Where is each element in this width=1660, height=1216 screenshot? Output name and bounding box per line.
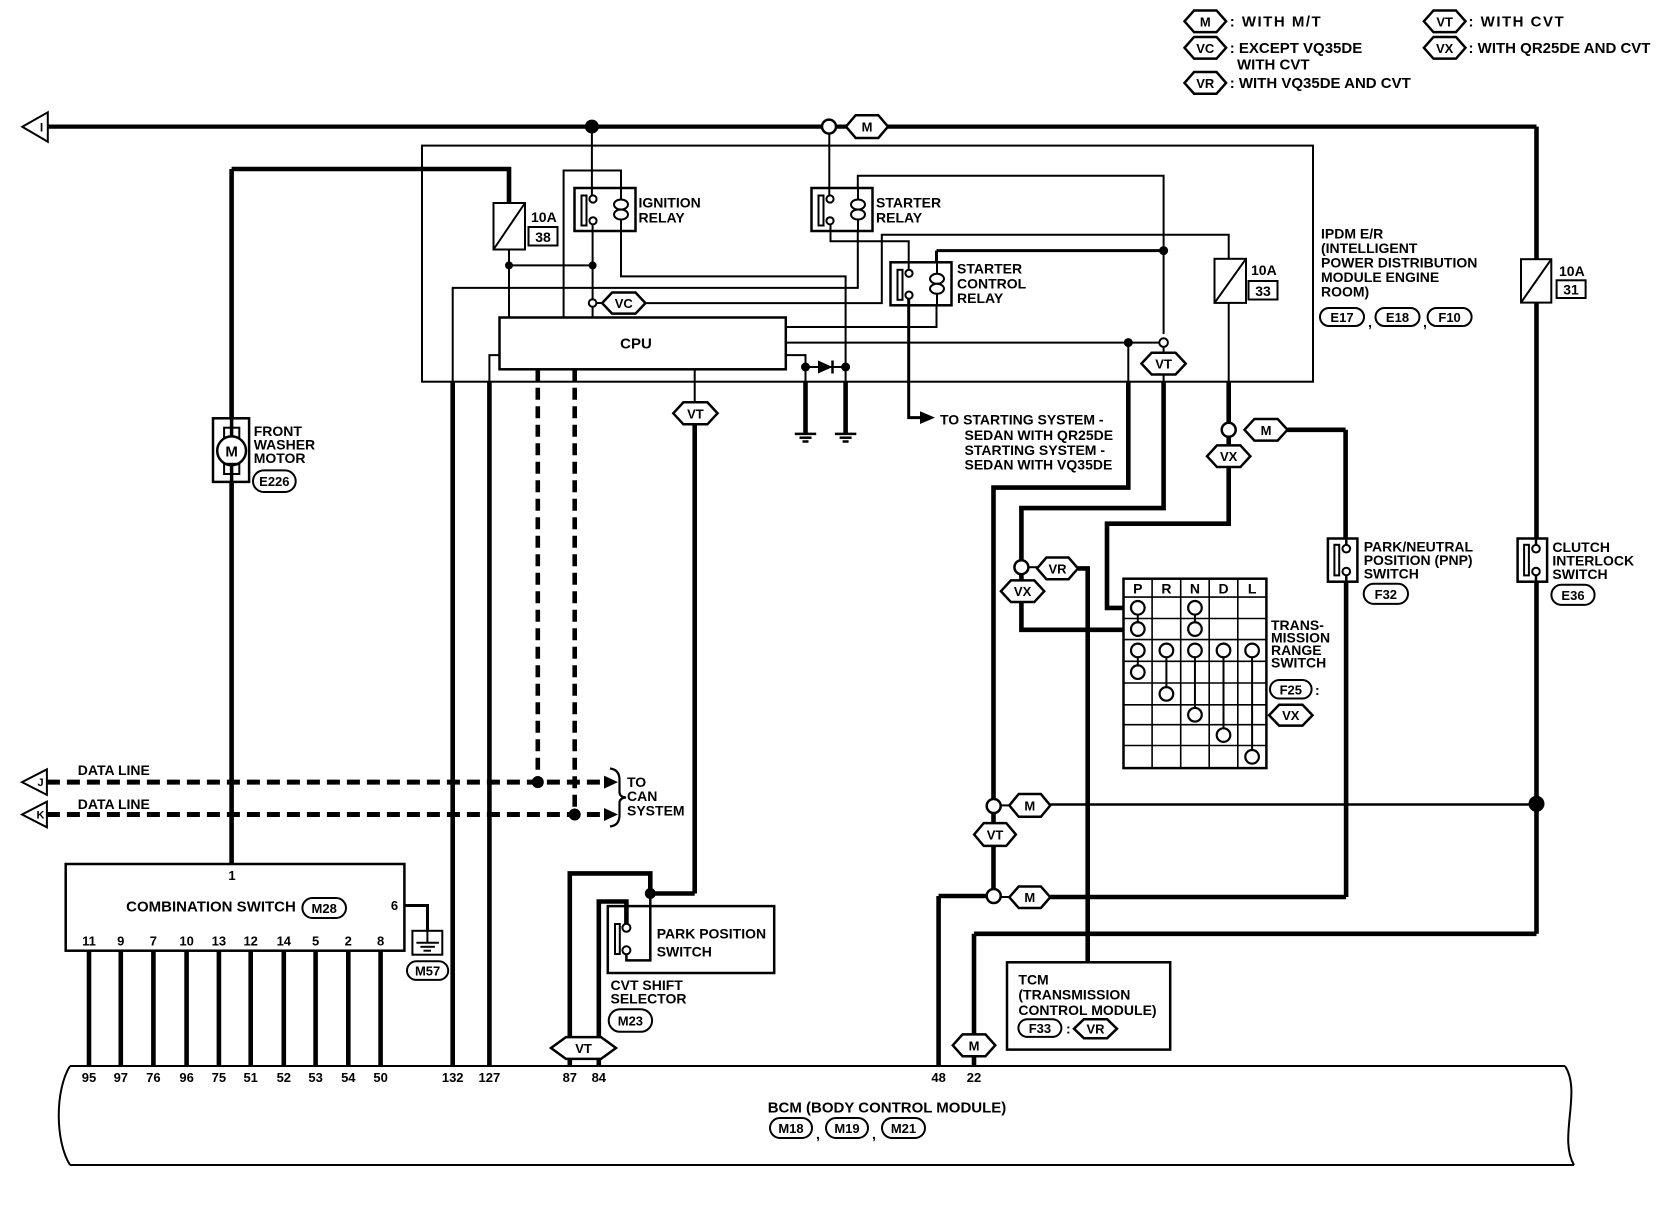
svg-text:SEDAN WITH QR25DE: SEDAN WITH QR25DE [965, 427, 1114, 443]
svg-text:87: 87 [563, 1070, 577, 1085]
svg-text:M: M [969, 1038, 980, 1053]
svg-text:8: 8 [377, 934, 384, 949]
svg-text:IGNITION: IGNITION [639, 195, 701, 211]
svg-text:VT: VT [575, 1041, 592, 1056]
svg-text:CPU: CPU [620, 335, 652, 352]
svg-text:VX: VX [1014, 584, 1032, 599]
svg-text:97: 97 [114, 1070, 128, 1085]
svg-text:(TRANSMISSION: (TRANSMISSION [1018, 987, 1130, 1003]
svg-text:K: K [37, 809, 45, 821]
svg-text:M: M [1024, 890, 1035, 905]
svg-text:1: 1 [228, 868, 235, 883]
svg-text:10: 10 [179, 934, 193, 949]
svg-text:M28: M28 [312, 901, 337, 916]
svg-text:VT: VT [1155, 357, 1172, 372]
svg-text:F10: F10 [1438, 310, 1460, 325]
svg-text:RELAY: RELAY [639, 209, 686, 225]
svg-text:75: 75 [212, 1070, 226, 1085]
svg-text:SEDAN WITH VQ35DE: SEDAN WITH VQ35DE [965, 457, 1113, 473]
svg-text:M57: M57 [415, 964, 440, 979]
svg-text:E36: E36 [1561, 588, 1584, 603]
svg-text:31: 31 [1563, 282, 1579, 298]
svg-text:R: R [1161, 580, 1171, 596]
svg-text:SWITCH: SWITCH [1364, 566, 1419, 582]
svg-text:,: , [1368, 314, 1372, 330]
svg-text:VT: VT [687, 406, 704, 421]
svg-text:J: J [37, 777, 43, 789]
svg-text:13: 13 [212, 934, 226, 949]
svg-text:VR: VR [1086, 1022, 1105, 1037]
svg-text:33: 33 [1255, 283, 1271, 299]
svg-text:VR: VR [1048, 561, 1067, 576]
svg-text:95: 95 [82, 1070, 96, 1085]
svg-text:M: M [1200, 14, 1211, 29]
svg-text:M: M [1261, 423, 1272, 438]
svg-text:E226: E226 [259, 474, 289, 489]
svg-text:MOTOR: MOTOR [254, 450, 306, 466]
svg-text:: WITH CVT: : WITH CVT [1469, 14, 1566, 31]
svg-text:P: P [1133, 580, 1142, 596]
svg-text:VT: VT [1436, 14, 1453, 29]
svg-text:,: , [872, 1126, 876, 1142]
svg-text:132: 132 [442, 1070, 464, 1085]
svg-text:SYSTEM: SYSTEM [627, 803, 685, 819]
svg-text:CONTROL MODULE): CONTROL MODULE) [1018, 1002, 1156, 1018]
svg-text:M: M [225, 443, 238, 460]
svg-text:E18: E18 [1386, 310, 1409, 325]
svg-text:10A: 10A [1251, 262, 1277, 278]
svg-text:7: 7 [150, 934, 157, 949]
svg-text:STARTER: STARTER [876, 195, 941, 211]
svg-text:52: 52 [277, 1070, 291, 1085]
svg-text:M18: M18 [778, 1121, 803, 1136]
svg-text:6: 6 [391, 898, 398, 913]
svg-text:48: 48 [931, 1070, 945, 1085]
svg-text:54: 54 [341, 1070, 356, 1085]
svg-text:WITH CVT: WITH CVT [1237, 56, 1310, 73]
svg-text:9: 9 [117, 934, 124, 949]
svg-text:,: , [1423, 314, 1427, 330]
svg-text::: : [1066, 1021, 1071, 1037]
svg-text:I: I [40, 120, 43, 134]
svg-text:PARK POSITION: PARK POSITION [657, 925, 766, 941]
svg-text:96: 96 [179, 1070, 193, 1085]
svg-text:TO STARTING SYSTEM -: TO STARTING SYSTEM - [940, 412, 1104, 428]
svg-text:VT: VT [987, 828, 1004, 843]
svg-text:SWITCH: SWITCH [1271, 655, 1326, 671]
svg-text:M: M [1024, 798, 1035, 813]
svg-text:: WITH VQ35DE AND CVT: : WITH VQ35DE AND CVT [1230, 75, 1411, 92]
svg-text:N: N [1190, 580, 1200, 596]
svg-text:10A: 10A [531, 209, 557, 225]
svg-text:F25: F25 [1280, 682, 1302, 697]
svg-text:VC: VC [1196, 41, 1215, 56]
svg-text:VX: VX [1436, 41, 1454, 56]
svg-text:ROOM): ROOM) [1321, 284, 1369, 300]
svg-text:BCM (BODY CONTROL MODULE): BCM (BODY CONTROL MODULE) [768, 1100, 1007, 1117]
svg-text:5: 5 [312, 934, 319, 949]
svg-text:76: 76 [146, 1070, 160, 1085]
svg-text:127: 127 [479, 1070, 501, 1085]
svg-text:M23: M23 [618, 1014, 643, 1029]
svg-text:STARTER: STARTER [957, 261, 1022, 277]
svg-text:TCM: TCM [1018, 971, 1048, 987]
svg-text:SWITCH: SWITCH [657, 944, 712, 960]
svg-text:11: 11 [82, 934, 96, 949]
svg-text:DATA LINE: DATA LINE [78, 762, 150, 778]
svg-text:M21: M21 [891, 1121, 916, 1136]
svg-text:VX: VX [1282, 708, 1300, 723]
svg-text:L: L [1248, 580, 1257, 596]
svg-text:,: , [816, 1126, 820, 1142]
svg-text:50: 50 [373, 1070, 387, 1085]
svg-text:: WITH M/T: : WITH M/T [1230, 14, 1322, 31]
svg-text:SWITCH: SWITCH [1552, 566, 1607, 582]
svg-text:: WITH QR25DE AND CVT: : WITH QR25DE AND CVT [1469, 40, 1651, 57]
svg-text:STARTING SYSTEM -: STARTING SYSTEM - [965, 442, 1106, 458]
svg-text:VX: VX [1220, 449, 1238, 464]
svg-text:E17: E17 [1330, 310, 1353, 325]
svg-text:F33: F33 [1029, 1021, 1051, 1036]
svg-text:CONTROL: CONTROL [957, 275, 1027, 291]
svg-text:38: 38 [535, 229, 551, 245]
svg-text:: EXCEPT VQ35DE: : EXCEPT VQ35DE [1230, 40, 1363, 57]
svg-text:M19: M19 [834, 1121, 859, 1136]
svg-text:53: 53 [308, 1070, 322, 1085]
svg-text:D: D [1218, 580, 1228, 596]
svg-text:12: 12 [243, 934, 257, 949]
svg-text:VR: VR [1196, 76, 1215, 91]
svg-text:84: 84 [592, 1070, 607, 1085]
svg-text:SELECTOR: SELECTOR [611, 991, 687, 1007]
svg-text:22: 22 [967, 1070, 981, 1085]
svg-text::: : [1315, 682, 1320, 698]
svg-text:M: M [862, 120, 873, 135]
svg-text:DATA LINE: DATA LINE [78, 796, 150, 812]
svg-text:VC: VC [615, 296, 634, 311]
svg-text:51: 51 [243, 1070, 257, 1085]
svg-text:14: 14 [277, 934, 292, 949]
svg-text:F32: F32 [1375, 587, 1397, 602]
svg-text:RELAY: RELAY [957, 290, 1004, 306]
svg-text:10A: 10A [1559, 263, 1585, 279]
svg-text:RELAY: RELAY [876, 209, 923, 225]
svg-text:2: 2 [345, 934, 352, 949]
svg-text:COMBINATION SWITCH: COMBINATION SWITCH [126, 899, 296, 916]
